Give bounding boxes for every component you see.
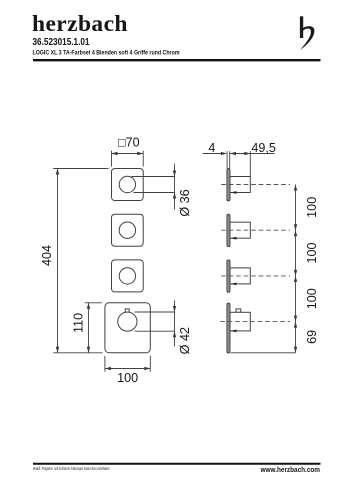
- svg-text:100: 100: [305, 288, 319, 309]
- svg-text:100: 100: [305, 197, 319, 218]
- svg-text:Modell-, Programm- und technis: Modell-, Programm- und technische Änderu…: [33, 465, 110, 471]
- svg-text:69: 69: [305, 330, 319, 344]
- svg-text:herzbach: herzbach: [32, 11, 128, 37]
- svg-text:4: 4: [208, 141, 215, 155]
- svg-text:100: 100: [305, 242, 319, 263]
- svg-text:Ø 36: Ø 36: [178, 189, 192, 216]
- svg-text:404: 404: [40, 245, 54, 266]
- svg-text:□70: □70: [118, 136, 140, 150]
- svg-text:49,5: 49,5: [251, 141, 276, 155]
- svg-text:36.523015.1.01: 36.523015.1.01: [33, 37, 90, 48]
- svg-text:www.herzbach.com: www.herzbach.com: [260, 467, 320, 474]
- svg-text:Ø 42: Ø 42: [178, 327, 192, 354]
- svg-text:110: 110: [71, 313, 85, 333]
- svg-text:LOGIC XL 3 TA-Farbset 4 Blende: LOGIC XL 3 TA-Farbset 4 Blenden soft 4 G…: [33, 49, 180, 56]
- svg-text:100: 100: [117, 371, 138, 385]
